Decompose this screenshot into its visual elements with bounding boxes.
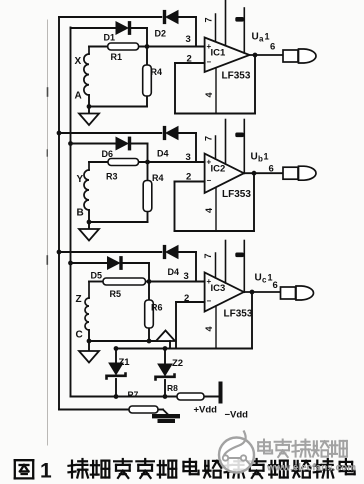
node junction R to jog — [145, 45, 149, 49]
wire feedback right — [251, 293, 253, 349]
wire supply line a — [225, 0, 227, 46]
inductor winding Y — [84, 170, 89, 210]
wire diode to corner — [178, 252, 196, 282]
label LF353 — [224, 309, 253, 320]
svg-text:c: c — [262, 276, 267, 285]
svg-text:LF353: LF353 — [224, 309, 253, 320]
label output Ua1 — [252, 32, 270, 44]
label IC1 — [211, 48, 227, 59]
label D1 — [104, 33, 116, 43]
wire output — [250, 54, 284, 56]
wire output — [244, 172, 283, 174]
wire coil top bend — [88, 282, 90, 299]
wire Z2 lead — [164, 349, 166, 365]
label R8 — [167, 383, 178, 393]
resistor R4 body — [143, 181, 152, 212]
resistor R3 body — [108, 159, 139, 166]
label terminal C — [76, 330, 83, 341]
ground symbol stage3 — [79, 341, 99, 363]
caption 图1 换相预处理电路过零比较单元 — [15, 459, 355, 483]
svg-text:Z1: Z1 — [119, 357, 131, 368]
label D4 — [157, 149, 169, 159]
label terminal Y — [77, 174, 84, 185]
label output Ub1 — [251, 152, 269, 164]
op-amp plus mark — [207, 277, 212, 286]
label output Uc1 — [255, 273, 273, 285]
wire Z2 to rail — [164, 380, 166, 397]
svg-text:4: 4 — [204, 92, 214, 97]
svg-text:D2: D2 — [155, 29, 167, 39]
wire inner clamp rail stage 3 — [71, 262, 108, 264]
label terminal B — [77, 208, 84, 219]
wire pin 7 stub — [215, 14, 217, 42]
node bus tap stage 3 inner — [69, 261, 73, 265]
wire supply line a — [225, 120, 227, 165]
svg-text:3: 3 — [186, 152, 191, 163]
wire coil top bend — [88, 162, 90, 170]
wire pin 4 stub — [215, 187, 217, 231]
label R5 — [110, 289, 122, 299]
svg-text:D4: D4 — [168, 267, 180, 277]
connector output plug 3 — [281, 286, 314, 300]
node junction R to jog — [147, 280, 151, 284]
wire feedback bottom — [175, 113, 255, 115]
svg-text:R1: R1 — [111, 52, 123, 62]
connector output plug 1 — [283, 49, 316, 63]
wire jog to Rv — [146, 47, 148, 107]
wire diode to corner — [178, 133, 196, 162]
diode D1 — [116, 22, 131, 35]
svg-text:X: X — [75, 56, 82, 67]
wire -Vdd rail bottom — [59, 409, 163, 411]
svg-text:C: C — [76, 330, 83, 341]
wire diode to corner — [178, 17, 196, 47]
svg-text:U: U — [255, 273, 262, 284]
diode D2 — [163, 10, 178, 23]
svg-text:7: 7 — [203, 253, 213, 258]
svg-text:D5: D5 — [91, 271, 103, 281]
svg-text:A: A — [75, 91, 82, 102]
node output junction — [253, 53, 257, 57]
wire jog to Rv — [148, 282, 150, 342]
svg-text:3: 3 — [184, 271, 189, 282]
wire jog to Rv — [147, 162, 149, 222]
label R7 blob — [128, 390, 139, 400]
label D6 — [102, 149, 114, 159]
node output junction — [252, 171, 256, 175]
wire feedback bottom — [175, 230, 255, 232]
label -Vdd — [225, 410, 249, 421]
label R6 — [151, 303, 163, 313]
label pin 8 tick — [236, 253, 244, 257]
wire inverting input — [175, 181, 205, 183]
svg-text:4: 4 — [204, 208, 214, 213]
svg-text:−: − — [207, 176, 212, 185]
label R4 — [151, 67, 163, 77]
wire noninverting input line — [89, 161, 205, 163]
svg-text:6: 6 — [273, 280, 278, 291]
wire pin 4 stub — [215, 306, 217, 349]
label Z1 — [119, 357, 131, 368]
power symbol up triangle — [156, 331, 175, 342]
label terminal X — [75, 56, 82, 67]
node coil C bottom — [87, 339, 91, 343]
op-amp minus mark — [207, 176, 212, 185]
wire inverting input — [176, 301, 205, 303]
inductor winding X — [84, 54, 89, 95]
svg-text:IC2: IC2 — [211, 164, 226, 175]
op-amp minus mark — [207, 58, 212, 67]
label pin 8 tick — [236, 18, 244, 22]
svg-text:7: 7 — [204, 17, 214, 22]
label R4 — [152, 173, 164, 183]
diode D4 — [163, 245, 178, 258]
wire noninverting input line — [89, 281, 205, 283]
wire coil bottom — [88, 95, 90, 107]
node coil bottom — [87, 105, 91, 109]
node R6 bottom — [147, 339, 151, 343]
label pin 3 — [186, 34, 191, 45]
svg-text:www.elecfans.com: www.elecfans.com — [266, 463, 356, 474]
label pin 4 — [204, 208, 214, 213]
svg-text:IC1: IC1 — [211, 48, 227, 59]
svg-text:4: 4 — [204, 326, 214, 331]
label pin 2 — [184, 293, 189, 304]
label pin 2 — [186, 172, 191, 183]
svg-text:LF353: LF353 — [222, 189, 251, 200]
node bus tap stage 2 inner — [69, 142, 73, 146]
node Z2 tap — [163, 347, 167, 351]
wire +Vdd rail bottom — [71, 396, 219, 398]
svg-text:R7: R7 — [128, 390, 139, 400]
wire feedback left — [174, 63, 176, 114]
label pin 4 — [204, 326, 214, 331]
node bus tap stage 3 outer — [57, 250, 61, 254]
label pin 2 — [187, 54, 192, 65]
wire noninverting input line — [89, 46, 205, 48]
svg-text:b: b — [258, 155, 263, 164]
ground symbol — [79, 222, 99, 241]
earth ground — [153, 410, 180, 423]
label R1 — [111, 52, 123, 62]
wire feedback bottom — [176, 348, 252, 350]
label pin 3 — [186, 152, 191, 163]
op-amp plus mark — [207, 158, 212, 167]
node Z1 tap — [114, 347, 118, 351]
wire Z1 to rail — [115, 379, 117, 397]
svg-text:IC3: IC3 — [211, 283, 226, 294]
label LF353 — [222, 71, 251, 82]
op-amp plus mark — [207, 42, 212, 51]
svg-text:U: U — [251, 152, 258, 163]
wire inner clamp rail stage 1 — [71, 27, 117, 29]
svg-text:3: 3 — [186, 34, 191, 45]
wire pin 7 stub — [215, 136, 217, 159]
svg-text:R4: R4 — [152, 173, 164, 183]
svg-text:−: − — [207, 58, 212, 67]
wire stage3 bottom node line — [88, 340, 170, 342]
svg-text:D6: D6 — [102, 149, 114, 159]
svg-text:1: 1 — [264, 152, 269, 162]
label pin 7 — [203, 253, 213, 258]
diode D5 — [108, 257, 123, 270]
wire diode to jog — [131, 144, 148, 163]
label IC2 — [211, 164, 226, 175]
wire Z1 lead — [115, 349, 117, 364]
label D5 — [91, 271, 103, 281]
wire diode to jog — [131, 28, 147, 47]
svg-text:+Vdd: +Vdd — [194, 405, 218, 416]
wire feedback left — [175, 302, 177, 349]
wire top clamp rail stage 1 — [59, 16, 161, 18]
op-amp IC2 LF353 — [205, 154, 244, 193]
svg-text:Y: Y — [77, 174, 84, 185]
node junction R to jog — [146, 160, 150, 164]
wire feedback left — [174, 182, 176, 232]
terminal bar Vdd — [219, 382, 222, 403]
scan streak artifact — [47, 20, 49, 445]
wire pin 7 stub — [215, 253, 217, 278]
label pin 7 — [204, 136, 214, 141]
label pin 6 — [270, 42, 275, 53]
label pin 6 — [269, 164, 274, 175]
resistor R6 body — [145, 300, 154, 328]
op-amp IC1 LF353 — [205, 38, 250, 73]
resistor R4 body — [143, 65, 152, 96]
svg-text:R4: R4 — [151, 67, 163, 77]
label pin 3 — [184, 271, 189, 282]
wire zener line — [116, 348, 176, 350]
svg-text:a: a — [259, 35, 264, 44]
svg-text:6: 6 — [270, 42, 275, 53]
resistor R1 body — [108, 43, 139, 50]
wire jog down to zener line — [169, 341, 171, 349]
label D4 — [168, 267, 180, 277]
wire supply line b — [243, 241, 245, 293]
svg-text:R5: R5 — [110, 289, 122, 299]
svg-text:U: U — [252, 32, 259, 43]
wire coil bottom — [88, 330, 90, 341]
label pin 6 — [273, 280, 278, 291]
svg-text:LF353: LF353 — [222, 71, 251, 82]
wire bottom node line — [88, 106, 147, 108]
label R3 — [106, 172, 118, 182]
wire inner bus +Vdd rail — [70, 28, 72, 397]
node Z2 rail junction — [163, 395, 167, 399]
wire bottom node line — [88, 221, 148, 223]
label Z2 — [172, 358, 183, 369]
label pin 7 — [204, 17, 214, 22]
wire supply line a — [225, 241, 227, 283]
wire supply line b — [243, 120, 245, 174]
node coil bottom — [87, 220, 91, 224]
node bus tap stage 2 outer — [57, 131, 61, 135]
svg-text:B: B — [77, 208, 84, 219]
svg-text:6: 6 — [269, 164, 274, 175]
svg-text:R3: R3 — [106, 172, 118, 182]
wire feedback right — [254, 56, 256, 114]
wire inverting input — [175, 62, 205, 64]
svg-text:Z2: Z2 — [172, 358, 183, 369]
svg-text:−: − — [207, 297, 212, 306]
wire coil top bend — [88, 47, 90, 55]
svg-text:R8: R8 — [167, 383, 178, 393]
connector output plug 2 — [283, 166, 316, 180]
wire clamp rail stage 3 — [59, 251, 161, 253]
svg-text:1: 1 — [265, 32, 270, 42]
node output junction — [250, 290, 254, 294]
op-amp minus mark — [207, 297, 212, 306]
diode D6 — [116, 137, 131, 150]
svg-text:1: 1 — [40, 460, 52, 483]
watermark logo and text — [219, 432, 356, 474]
resistor R9 body — [129, 406, 158, 413]
wire pin 4 stub — [215, 68, 217, 114]
wire inner clamp rail stage 2 — [71, 143, 117, 145]
wire left bus -Vdd rail — [58, 17, 60, 410]
svg-text:7: 7 — [204, 136, 214, 141]
wire supply line b — [243, 8, 245, 53]
wire coil bottom — [88, 210, 90, 222]
ground symbol — [79, 107, 99, 126]
resistor R8 body — [177, 393, 204, 400]
zener diode Z2 — [156, 364, 175, 380]
label D2 — [155, 29, 167, 39]
svg-text:R6: R6 — [151, 303, 163, 313]
wire output — [244, 291, 281, 293]
label LF353 — [222, 189, 251, 200]
wire diode to jog — [122, 263, 149, 282]
inductor winding Z — [85, 298, 89, 330]
node Z1 rail junction — [114, 395, 118, 399]
svg-text:D4: D4 — [157, 149, 169, 159]
resistor R5 body — [103, 278, 146, 285]
svg-text:D1: D1 — [104, 33, 116, 43]
label +Vdd — [194, 405, 218, 416]
op-amp IC3 LF353 — [205, 273, 244, 312]
label terminal A — [75, 91, 82, 102]
label terminal Z — [76, 294, 82, 305]
label pin 8 tick — [236, 133, 244, 137]
wire clamp rail stage 2 — [59, 132, 161, 134]
wire feedback right — [253, 174, 255, 231]
svg-text:Z: Z — [76, 294, 82, 305]
zener diode Z1 — [107, 363, 126, 379]
svg-text:−Vdd: −Vdd — [225, 410, 249, 421]
label IC3 — [211, 283, 226, 294]
diode D4 — [163, 126, 178, 139]
label pin 4 — [204, 92, 214, 97]
